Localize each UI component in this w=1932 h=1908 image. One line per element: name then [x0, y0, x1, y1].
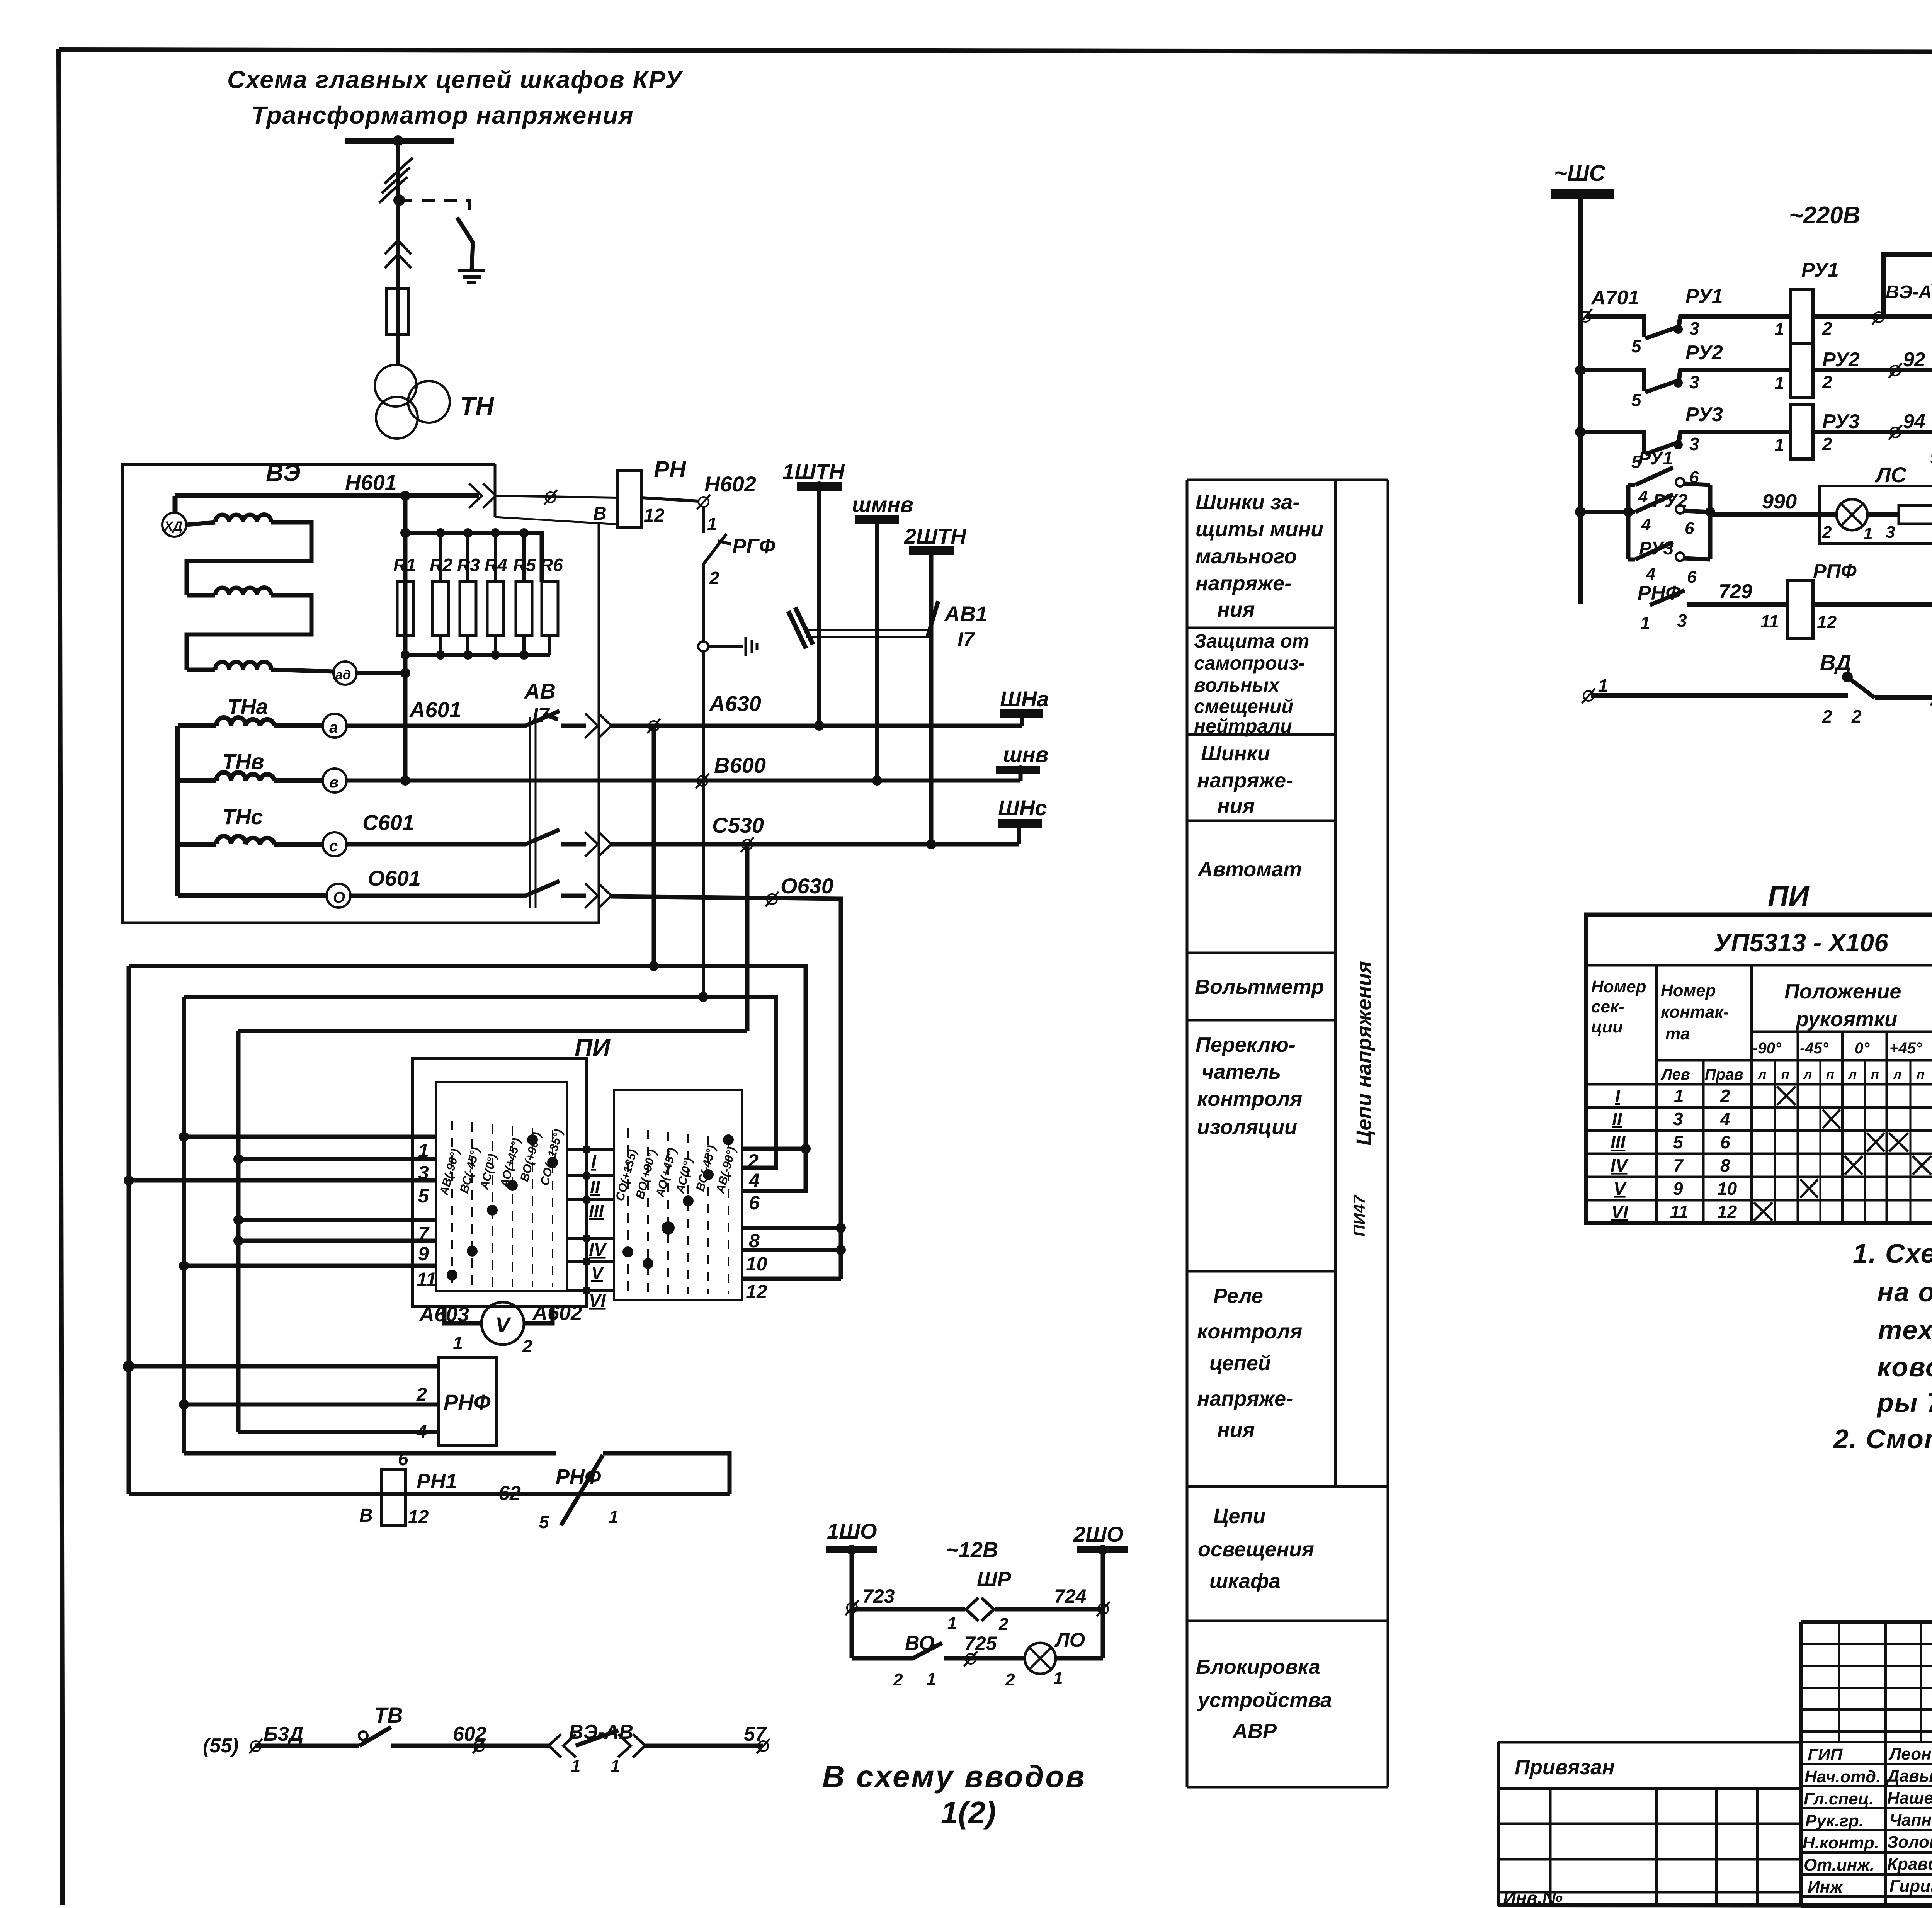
svg-text:РН: РН [654, 456, 687, 482]
angle headers [1753, 1040, 1932, 1057]
svg-text:ПИ47: ПИ47 [1350, 1194, 1368, 1236]
wire to pin5 [129, 1178, 436, 1183]
label: Шинки защиты минимального напряжения [1196, 491, 1323, 621]
svg-text:~12В: ~12В [946, 1537, 998, 1562]
svg-text:ВЭ-АВ: ВЭ-АВ [569, 1721, 633, 1743]
svg-text:729: 729 [1719, 580, 1752, 603]
svg-text:Положение: Положение [1784, 980, 1901, 1003]
lamp ЛО [1025, 1643, 1056, 1674]
svg-text:3: 3 [1677, 610, 1687, 631]
node on busbar [393, 135, 403, 146]
svg-text:2: 2 [709, 568, 719, 588]
relay coil РУ1 [1790, 289, 1813, 344]
svg-text:4: 4 [1646, 565, 1655, 583]
svg-text:725: 725 [964, 1633, 997, 1654]
svg-text:Прав: Прав [1705, 1066, 1743, 1083]
wire A630 [611, 724, 1022, 728]
svg-text:рукоятки: рукоятки [1795, 1008, 1897, 1031]
svg-text:602: 602 [453, 1723, 486, 1745]
bus tap ШТНВ [855, 515, 899, 524]
svg-text:л: л [1803, 1067, 1812, 1082]
svg-text:10: 10 [746, 1253, 767, 1275]
svg-text:п: п [1871, 1067, 1879, 1082]
svg-text:8: 8 [1720, 1155, 1730, 1175]
svg-text:12: 12 [644, 505, 665, 526]
svg-text:5: 5 [1631, 390, 1642, 410]
wire ВД left [1591, 693, 1848, 698]
svg-text:6: 6 [1720, 1132, 1730, 1152]
svg-text:ад: ад [335, 668, 351, 682]
svg-text:3: 3 [418, 1162, 429, 1184]
wire O601 left [178, 893, 327, 898]
switch ВО blade [913, 1643, 942, 1658]
aux contact РУ1 [1628, 468, 1673, 485]
wire O630 [611, 896, 841, 1279]
PI left column labels [437, 1127, 566, 1197]
svg-text:7: 7 [1673, 1155, 1684, 1175]
rung ВД [1582, 689, 1595, 703]
svg-text:1: 1 [1053, 1669, 1063, 1688]
PI pin labels left [417, 1140, 437, 1290]
svg-text:5: 5 [1673, 1132, 1684, 1152]
PI right section contact dots [723, 1134, 734, 1145]
rung1 wire right [1813, 314, 1932, 319]
label: Переключатель контроля изоляции [1196, 1033, 1302, 1139]
svg-text:Н601: Н601 [345, 470, 397, 495]
svg-text:Рук.гр.: Рук.гр. [1805, 1811, 1864, 1830]
svg-text:О601: О601 [368, 866, 421, 890]
svg-text:В600: В600 [714, 753, 766, 777]
svg-text:Н.контр.: Н.контр. [1803, 1833, 1879, 1852]
svg-text:А630: А630 [709, 691, 761, 716]
svg-text:4: 4 [1720, 1109, 1730, 1129]
svg-text:+45°: +45° [1889, 1040, 1922, 1057]
wire to chassis ground [708, 645, 743, 648]
PI pin labels right [746, 1150, 767, 1303]
svg-text:Номер: Номер [1661, 981, 1716, 1000]
wire to 57 [645, 1744, 763, 1748]
PI right column labels [613, 1144, 739, 1202]
node aux to lamp wire [1705, 507, 1715, 517]
svg-text:R4: R4 [485, 555, 507, 575]
resistor top bus [405, 533, 542, 582]
svg-text:шнв: шнв [1003, 742, 1048, 767]
svg-text:мального: мального [1196, 545, 1297, 568]
svg-text:2: 2 [416, 1384, 427, 1405]
svg-text:ЛО: ЛО [1054, 1629, 1085, 1651]
wire to pin7 [238, 1218, 436, 1222]
svg-text:12: 12 [1717, 1202, 1737, 1222]
svg-text:2: 2 [1822, 523, 1832, 542]
svg-text:О: О [333, 889, 345, 906]
wire A to plug [561, 724, 586, 728]
node at resistor bus [400, 528, 410, 538]
svg-text:I7: I7 [957, 628, 975, 651]
wire B-drop continues [702, 651, 705, 997]
svg-text:на основании чертежей 6ВБ.0: на основании чертежей 6ВБ.071.804.Э3, 6В… [1877, 1277, 1932, 1307]
svg-text:напряже-: напряже- [1196, 572, 1291, 595]
svg-text:Защита от: Защита от [1194, 630, 1309, 652]
wire pin10 [742, 1248, 841, 1252]
contact RNF blade [561, 1455, 603, 1525]
svg-text:2: 2 [1851, 706, 1862, 726]
core marker 725 [964, 1651, 977, 1666]
svg-text:R3: R3 [457, 555, 480, 575]
svg-text:смещений: смещений [1194, 696, 1293, 717]
switch AB blade (neutral) [526, 881, 560, 896]
bus tap 1ШТН [797, 482, 842, 491]
wire C530 [611, 842, 1019, 847]
svg-text:Инв.№: Инв.№ [1503, 1888, 1563, 1908]
svg-text:А601: А601 [409, 697, 461, 722]
core marker on PH wire [544, 490, 557, 505]
core marker H602 [697, 495, 710, 509]
svg-text:1: 1 [927, 1670, 936, 1689]
header Номер контакта [1661, 981, 1729, 1043]
svg-text:724: 724 [1054, 1585, 1086, 1607]
contact РУ3 [1645, 442, 1678, 454]
switch AB1 left blade [788, 607, 813, 648]
earthing switch blade [457, 218, 473, 270]
svg-text:ции: ции [1591, 1017, 1623, 1036]
svg-text:Золотарева: Золотарева [1887, 1833, 1932, 1852]
svg-text:3: 3 [1689, 318, 1699, 338]
resistor R3 [466, 533, 469, 582]
relay RNF wire 2 [129, 1364, 439, 1369]
svg-text:ВД: ВД [1820, 650, 1851, 675]
svg-text:1: 1 [418, 1140, 429, 1161]
resistor bottom bus [405, 653, 550, 657]
rung1 wire [1586, 316, 1644, 337]
wire lower rung left [852, 1656, 913, 1661]
wire O pins 8,10 nodes [836, 1223, 846, 1233]
svg-text:Гл.спец.: Гл.спец. [1804, 1789, 1874, 1808]
wire C-drop [745, 844, 750, 1031]
rung2 wire right [1813, 368, 1932, 372]
stamp names column [1803, 1745, 1932, 1896]
svg-text:с: с [329, 838, 338, 855]
core marker C530 [741, 837, 754, 852]
svg-text:АВ1: АВ1 [944, 602, 988, 626]
svg-text:А603: А603 [418, 1303, 469, 1326]
wire A-drop [652, 726, 656, 966]
svg-text:1: 1 [1863, 524, 1872, 543]
relay PH coil [618, 470, 642, 527]
plug chevrons O [585, 883, 611, 908]
PI right section contact columns [628, 1128, 728, 1294]
svg-text:в: в [329, 774, 338, 791]
svg-text:92: 92 [1903, 349, 1925, 371]
svg-text:3: 3 [1886, 523, 1895, 542]
svg-text:6: 6 [1689, 468, 1699, 487]
svg-text:1. Схема электрическая принц: 1. Схема электрическая принципиальная со… [1853, 1238, 1932, 1269]
svg-text:технической инфортации 0ВБ.1: технической инфортации 0ВБ.131.530 завод… [1878, 1315, 1932, 1345]
core marker O630 [765, 892, 779, 906]
svg-text:РУ1: РУ1 [1685, 285, 1723, 308]
terminal b circle [323, 769, 347, 792]
svg-text:1: 1 [1598, 675, 1608, 696]
left riser x617 [236, 1031, 241, 1432]
svg-text:1: 1 [611, 1757, 620, 1775]
svg-text:III: III [589, 1201, 604, 1221]
wire 2ШО drop [1101, 1553, 1105, 1658]
svg-text:РНФ: РНФ [556, 1465, 601, 1488]
node H601 [400, 491, 410, 501]
svg-text:РНФ: РНФ [444, 1390, 491, 1414]
svg-text:Инж: Инж [1808, 1877, 1844, 1896]
contact РУ2 [1645, 381, 1678, 392]
plug chevrons A [585, 713, 611, 738]
plug chevrons H601 [469, 483, 496, 508]
svg-text:РПФ: РПФ [1813, 560, 1857, 583]
svg-text:шкафа: шкафа [1209, 1570, 1281, 1593]
relay RNF coil [439, 1358, 497, 1445]
svg-text:1: 1 [707, 514, 717, 534]
core marker 123 [845, 1600, 859, 1615]
svg-text:2: 2 [747, 1150, 759, 1172]
svg-text:Реле: Реле [1213, 1284, 1263, 1308]
wire O to plug [561, 894, 586, 898]
bus tap ШНа [1000, 709, 1043, 718]
svg-text:изоляции: изоляции [1197, 1116, 1297, 1139]
Привязан block [1498, 1742, 1801, 1906]
table УП5313-Х106 grid [1586, 915, 1932, 1223]
terminal a circle [323, 714, 347, 738]
svg-text:1: 1 [1774, 373, 1784, 393]
wire to pin9 [238, 1239, 436, 1243]
svg-text:990: 990 [1762, 490, 1797, 513]
svg-text:РГФ: РГФ [732, 535, 775, 558]
plug chevrons C [585, 832, 611, 857]
svg-text:Давыдов: Давыдов [1886, 1767, 1932, 1786]
svg-text:1: 1 [1774, 319, 1784, 339]
svg-text:9: 9 [1673, 1178, 1683, 1199]
transformer TH circle 1 [375, 365, 417, 406]
resistor R6 [542, 582, 558, 636]
wire C to plug [561, 842, 586, 847]
switch PI outer box [413, 1058, 587, 1307]
svg-text:2. Смотреть совместно с лис: 2. Смотреть совместно с листами ЭС-19,28… [1833, 1424, 1932, 1454]
svg-text:самопроиз-: самопроиз- [1194, 652, 1305, 674]
wire upper loop to RNF contact [184, 1453, 730, 1494]
bus L4 (phase C lower) [238, 1029, 747, 1033]
relay RNF wire 4 [184, 1403, 439, 1407]
svg-text:5: 5 [539, 1512, 549, 1532]
svg-text:9: 9 [1930, 447, 1932, 468]
svg-text:11: 11 [417, 1269, 437, 1290]
svg-text:II: II [590, 1177, 600, 1197]
winding THc coil [178, 836, 323, 844]
svg-text:2ШО: 2ШО [1073, 1522, 1124, 1546]
resistor in ЛС [1867, 512, 1899, 517]
svg-text:Схема главных цепей шкафов: Схема главных цепей шкафов КРУ [227, 66, 684, 94]
svg-text:1: 1 [947, 1614, 957, 1633]
wire to pin3 [238, 1157, 436, 1161]
relay coil РПФ [1788, 581, 1813, 639]
svg-text:РУ3: РУ3 [1822, 410, 1860, 433]
svg-text:2: 2 [1822, 372, 1832, 392]
aux winding coil 3 [187, 662, 333, 672]
л/п row [1757, 1067, 1932, 1082]
svg-text:УП5313 - Х106: УП5313 - Х106 [1714, 928, 1889, 957]
wire С701 [1813, 602, 1932, 607]
wire 729 [1687, 602, 1788, 607]
svg-text:сек-: сек- [1591, 997, 1624, 1016]
svg-text:4: 4 [1641, 515, 1651, 534]
svg-text:2: 2 [1005, 1670, 1015, 1689]
switch AB1 right blade [927, 601, 938, 638]
svg-text:1: 1 [453, 1333, 463, 1353]
wire 990 [1710, 512, 1837, 517]
chevrons on feeder [385, 240, 411, 268]
svg-text:3: 3 [1673, 1109, 1683, 1129]
svg-text:нейтрали: нейтрали [1194, 715, 1292, 737]
svg-text:ТНс: ТНс [222, 804, 263, 829]
wire A601 [347, 724, 526, 728]
svg-text:Привязан: Привязан [1515, 1756, 1615, 1779]
wire 1ШО drop [850, 1553, 854, 1658]
svg-text:94: 94 [1903, 410, 1925, 433]
svg-text:ТНв: ТНв [222, 749, 264, 774]
bus tap 2ШТН [909, 546, 954, 555]
svg-text:12: 12 [746, 1281, 767, 1303]
svg-text:~ШС: ~ШС [1554, 161, 1606, 186]
resistor R4 [494, 533, 497, 582]
svg-text:РУ3: РУ3 [1685, 403, 1723, 426]
svg-text:-45°: -45° [1800, 1040, 1829, 1057]
terminal ad circle [333, 662, 357, 685]
svg-text:РУ1: РУ1 [1638, 448, 1673, 469]
svg-text:п: п [1917, 1067, 1925, 1082]
relay RNF wire 6 [238, 1430, 439, 1434]
disconnect hatch marks [379, 158, 413, 203]
svg-text:IV: IV [589, 1240, 607, 1260]
wire to pin1 [184, 1135, 436, 1139]
relay coil РУ2 [1790, 343, 1813, 397]
bus L3 (phase B lower) [184, 997, 776, 1168]
svg-text:11: 11 [1760, 611, 1779, 631]
svg-text:ВЭ: ВЭ [266, 460, 300, 486]
svg-text:Нач.отд.: Нач.отд. [1804, 1767, 1881, 1786]
svg-text:-90°: -90° [1753, 1040, 1782, 1057]
svg-text:1: 1 [571, 1757, 580, 1775]
transformer TH circle 2 [408, 381, 450, 423]
core marker 94 [1889, 425, 1902, 440]
lamp ЛС circle [1837, 499, 1867, 530]
svg-text:АВР: АВР [1232, 1719, 1277, 1743]
svg-text:Гирина: Гирина [1889, 1877, 1932, 1896]
dashed link to earthing switch [399, 200, 470, 217]
wire RGF branch [702, 507, 705, 533]
svg-text:ШНа: ШНа [1000, 687, 1049, 711]
svg-text:РУ1: РУ1 [1801, 259, 1839, 281]
wire to pin11 [184, 1264, 436, 1268]
svg-text:В: В [593, 503, 607, 524]
svg-text:1(2): 1(2) [941, 1795, 996, 1830]
svg-text:2: 2 [893, 1670, 903, 1689]
wire to 2ШО [995, 1607, 1103, 1612]
svg-text:R5: R5 [513, 555, 536, 575]
core marker after coil [1872, 310, 1885, 325]
aux contact РУ2 [1628, 495, 1673, 512]
svg-text:Шинки: Шинки [1201, 742, 1270, 765]
svg-text:ВО: ВО [905, 1632, 935, 1655]
svg-text:Цепи: Цепи [1213, 1505, 1265, 1528]
label: Блокировка устройства АВР [1196, 1655, 1332, 1743]
svg-text:контак-: контак- [1661, 1003, 1729, 1022]
svg-text:Б3Д: Б3Д [264, 1723, 303, 1745]
svg-text:чатель: чатель [1202, 1060, 1281, 1083]
svg-text:л: л [1848, 1067, 1857, 1082]
svg-text:устройства: устройства [1197, 1689, 1332, 1712]
switch AB linkage [530, 717, 536, 908]
svg-text:напряже-: напряже- [1197, 1387, 1293, 1410]
ground symbol [458, 271, 485, 283]
aux contact РУ3 [1628, 542, 1673, 559]
svg-text:Чапны: Чапны [1889, 1811, 1932, 1830]
core marker 57 [757, 1739, 770, 1753]
node B-drop to L3 [698, 992, 708, 1002]
svg-text:Леонов: Леонов [1888, 1745, 1932, 1763]
wire pin8 [742, 1226, 841, 1230]
svg-text:цепей: цепей [1209, 1352, 1271, 1375]
left rail [1578, 199, 1583, 604]
bus tap ШНв [996, 766, 1040, 774]
voltmeter V [481, 1302, 524, 1345]
PI section labels I-VI [589, 1151, 607, 1311]
svg-text:ЛС: ЛС [1874, 463, 1907, 487]
svg-text:контроля: контроля [1197, 1087, 1302, 1110]
bypass loop [1884, 254, 1932, 316]
svg-text:вольных: вольных [1194, 674, 1280, 696]
svg-text:РУ2: РУ2 [1685, 342, 1723, 364]
wire mid [391, 1744, 549, 1748]
wire C601 [347, 842, 526, 847]
winding THb coil [178, 772, 323, 781]
notes text [1833, 1238, 1932, 1454]
switch ТВ [359, 1731, 367, 1740]
vertical H601/resistor bus link [403, 496, 408, 781]
svg-text:РН1: РН1 [417, 1470, 457, 1493]
svg-text:12: 12 [408, 1507, 429, 1527]
svg-text:А602: А602 [532, 1301, 582, 1325]
svg-text:II: II [1612, 1109, 1622, 1129]
svg-text:ния: ния [1217, 598, 1255, 621]
svg-text:п: п [1826, 1067, 1834, 1082]
svg-text:ВЭ-АВ1: ВЭ-АВ1 [1886, 282, 1932, 303]
terminal O circle [327, 884, 350, 908]
svg-text:контроля: контроля [1197, 1320, 1302, 1343]
bus tap 1ШО [826, 1546, 877, 1553]
wire below RGF [702, 563, 705, 641]
svg-text:0°: 0° [1855, 1040, 1870, 1057]
plug contact ВЭ-АВ [549, 1734, 576, 1757]
winding aux XD circle [162, 513, 186, 537]
svg-text:9: 9 [418, 1243, 429, 1265]
voltmeter leads [444, 1307, 553, 1323]
switch AB blade (phase C) [526, 830, 560, 844]
bus tap 2ШО [1077, 1546, 1128, 1553]
svg-text:V: V [591, 1263, 604, 1283]
switch AB1 linkage [806, 630, 928, 637]
svg-text:Нашельский: Нашельский [1887, 1789, 1932, 1808]
switch AB blade (phase A) [526, 711, 560, 726]
connector ШР [966, 1598, 994, 1621]
svg-text:R1: R1 [393, 555, 416, 575]
chassis ground symbol [746, 637, 757, 656]
svg-text:VI: VI [1611, 1202, 1629, 1222]
PI left section contact columns [452, 1121, 553, 1287]
